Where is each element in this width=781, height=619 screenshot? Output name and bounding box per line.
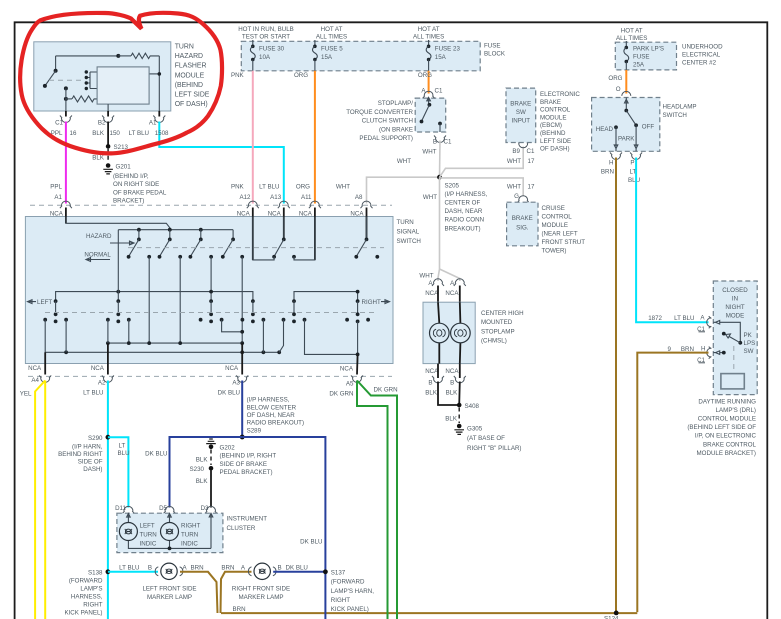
svg-text:PNK: PNK [231,184,245,191]
svg-text:HOT AT: HOT AT [621,28,643,35]
node HOT IN RUN label [238,26,294,41]
svg-text:ALL TIMES: ALL TIMES [413,34,444,41]
terminal A11 (top) [299,201,321,260]
lower switch unit L4 [241,299,266,323]
terminal H C1 (DRL) [707,347,712,359]
svg-text:(FORWARD: (FORWARD [69,578,103,585]
lamp RIGHT TURN INDIC [161,522,201,547]
wire L4 right contact down [262,320,264,353]
svg-text:DAYTIME RUNNING: DAYTIME RUNNING [698,398,756,405]
hazard contact set (top row) [127,228,244,259]
svg-text:FLASHER: FLASHER [175,63,207,70]
wire LT BLU headlamp P to DRL [636,158,708,323]
svg-text:OF BRAKE PEDAL: OF BRAKE PEDAL [113,189,167,196]
ground G201 [103,163,167,204]
svg-text:(ON BRAKE: (ON BRAKE [379,126,413,133]
wire BLK S230 to D3 [196,471,211,508]
svg-text:C1: C1 [55,120,63,127]
svg-text:SIG.: SIG. [516,225,529,232]
svg-text:BRN: BRN [233,606,246,613]
turn hazard flasher module box [34,42,210,111]
svg-text:BRAKE: BRAKE [512,215,533,222]
underhood electrical center #2 box [615,28,723,70]
svg-text:B2: B2 [98,120,106,127]
svg-text:LAMP'S (DRL): LAMP'S (DRL) [716,407,756,414]
mechanical link dashed (lower row) [45,312,376,314]
wire LT BLU S138 to left marker lamp [108,565,158,572]
svg-text:NCA: NCA [268,210,282,217]
svg-text:INPUT: INPUT [512,118,531,125]
lower switch unit L3 [199,299,224,323]
svg-text:(BEHIND: (BEHIND [175,82,203,89]
svg-text:BLK: BLK [92,155,105,162]
wire stationary 180 down to bus [179,257,181,343]
svg-text:FUSE 5: FUSE 5 [321,46,343,53]
svg-text:H: H [701,345,705,352]
splice S124 [604,611,619,619]
svg-text:BRAKE CONTROL: BRAKE CONTROL [703,441,757,448]
svg-text:FUSE 23: FUSE 23 [435,46,461,53]
svg-text:DK GRN: DK GRN [329,390,353,397]
DRL dashed link + output block [721,346,744,389]
svg-text:LT BLU: LT BLU [119,565,139,572]
svg-text:LPS: LPS [744,340,756,347]
svg-text:B: B [450,380,454,387]
svg-text:ELECTRONIC: ELECTRONIC [540,91,580,98]
svg-text:HEADLAMP: HEADLAMP [663,104,697,111]
turn signal switch box [25,217,421,364]
svg-text:WHT: WHT [419,273,433,280]
DRL park lamps switch [713,321,755,356]
wire ORG fuse23 to stoplamp switch [418,71,432,94]
svg-text:B: B [148,565,152,572]
svg-text:A4: A4 [31,377,39,384]
svg-text:ORG: ORG [418,72,432,79]
svg-text:CONTROL MODULE: CONTROL MODULE [698,416,756,423]
svg-text:NORMAL: NORMAL [84,251,111,258]
svg-text:H: H [609,160,613,167]
svg-text:OF DASH): OF DASH) [175,101,208,108]
svg-text:FRONT STRUT: FRONT STRUT [542,239,586,246]
fuse 30 10A [250,40,284,71]
cluster internal wires [127,513,213,550]
NCA labels CHMSL top [425,286,460,303]
wire L1 right contact down [65,320,67,353]
svg-text:SIDE OF BRAKE: SIDE OF BRAKE [220,461,267,468]
svg-text:RADIO BREAKOUT): RADIO BREAKOUT) [247,420,304,427]
flasher inner relay box U1 [97,67,149,111]
park lp's fuse 25A [624,41,664,70]
wire DK GRN A5 branch right [357,381,397,619]
svg-text:LEFT: LEFT [37,299,52,306]
svg-text:17: 17 [528,184,535,191]
lamp CHMSL right bulb [451,302,471,363]
terminal A2 (bottom) [83,343,114,396]
svg-text:15A: 15A [321,54,333,61]
terminal A13 (top) [268,201,290,239]
wire LT BLU A2 down [107,381,109,619]
svg-text:YEL: YEL [20,390,32,397]
svg-text:MODULE BRACKET): MODULE BRACKET) [697,450,756,457]
headlamp switch internals [596,98,655,152]
svg-text:PPL: PPL [50,184,62,191]
svg-text:TURN: TURN [397,219,414,226]
svg-text:(I/P HARNESS,: (I/P HARNESS, [247,397,290,404]
wire DK BLU right marker to S137 [273,565,325,572]
svg-text:INDIC: INDIC [140,540,157,547]
lamp RIGHT FRONT SIDE MARKER [232,563,290,601]
wire WHT S205 down to CHMSL [419,177,459,281]
terminal A1 (top) [50,201,72,223]
svg-text:(AT BASE OF: (AT BASE OF [467,435,505,442]
svg-text:RIGHT FRONT SIDE: RIGHT FRONT SIDE [232,585,290,592]
svg-text:NCA: NCA [425,368,439,375]
terminal D3 [201,505,217,514]
svg-text:LT: LT [119,442,126,449]
switch A11 elbow [294,217,315,260]
svg-text:(BEHIND LEFT SIDE OF: (BEHIND LEFT SIDE OF [687,424,756,431]
svg-text:MODULE: MODULE [542,222,568,229]
flasher internal switch [43,56,68,91]
ground G202 [206,439,276,476]
svg-text:TURN: TURN [140,531,157,538]
svg-text:TOWER): TOWER) [542,248,567,255]
svg-text:KICK PANEL): KICK PANEL) [331,606,369,613]
svg-text:ELECTRICAL: ELECTRICAL [682,52,721,59]
svg-text:RIGHT: RIGHT [362,299,381,306]
wire LT BLU 1508 [129,122,284,204]
wire DK BLU A3 to S289 [241,381,243,438]
svg-text:BRAKE: BRAKE [540,99,561,106]
svg-text:(NEAR LEFT: (NEAR LEFT [542,231,578,238]
svg-text:(BEHIND I/P, RIGHT: (BEHIND I/P, RIGHT [220,453,277,460]
terminal A4 (bottom) [20,352,51,397]
svg-text:NCA: NCA [237,210,251,217]
wire BLK 150 [92,122,120,146]
svg-text:SWITCH: SWITCH [397,238,421,245]
svg-text:D3: D3 [201,505,209,512]
svg-text:S290: S290 [88,435,103,442]
svg-text:CLUSTER: CLUSTER [227,525,256,532]
svg-text:CENTER #2: CENTER #2 [682,60,717,67]
svg-text:HOT AT: HOT AT [321,26,343,33]
svg-text:16: 16 [70,130,77,137]
headlamp switch box [592,98,697,152]
wire DK BLU S289 to D5 [145,437,242,508]
wire subbus-left down to L2 [117,230,119,301]
svg-text:NCA: NCA [445,290,459,297]
svg-text:ON RIGHT SIDE: ON RIGHT SIDE [113,181,159,188]
connector dashed line C2 top [30,204,392,206]
ground G305 [454,424,521,452]
switch A13 unit [272,217,296,259]
terminal A C1 (DRL) [707,316,712,328]
svg-text:I/P, ON ELECTRONIC: I/P, ON ELECTRONIC [695,433,757,440]
wire WHT S205 to A8 [336,158,440,204]
svg-text:HARNESS,: HARNESS, [71,594,103,601]
svg-text:MODULE: MODULE [175,72,205,79]
svg-text:G202: G202 [220,444,236,451]
lower switch unit L1 [43,299,68,323]
svg-text:BRACKET): BRACKET) [113,198,144,205]
svg-text:LAMP'S: LAMP'S [80,586,102,593]
DRL module caption [687,398,756,457]
red scribble circle [20,13,222,154]
svg-text:LEFT FRONT SIDE: LEFT FRONT SIDE [142,585,196,592]
svg-text:B: B [278,565,282,572]
svg-text:TEST OR START: TEST OR START [242,34,290,41]
svg-text:B: B [433,139,437,146]
svg-text:HAZARD: HAZARD [175,53,203,60]
terminal A (CHMSL left) [428,279,444,287]
svg-text:RIGHT: RIGHT [181,522,200,529]
wire BLK to G305 [445,408,459,424]
svg-text:SWITCH: SWITCH [663,112,687,119]
svg-text:BLOCK: BLOCK [484,51,506,58]
svg-text:(CHMSL): (CHMSL) [481,338,507,345]
wire L5 right contact down [305,320,358,355]
svg-text:S230: S230 [190,466,205,473]
svg-text:FUSE: FUSE [633,54,650,61]
svg-text:DK BLU: DK BLU [300,539,322,546]
terminal A12 (top) [237,201,259,260]
svg-text:G201: G201 [116,164,132,171]
svg-text:BELOW CENTER: BELOW CENTER [247,404,297,411]
svg-text:CLOSED: CLOSED [722,287,748,294]
internal bus y352 [45,350,281,354]
svg-text:BREAKOUT): BREAKOUT) [445,225,481,232]
wire WHT TCC to S205 [439,141,442,178]
svg-text:LEFT: LEFT [140,522,155,529]
wire DK BLU S289 to S137 [242,437,325,619]
svg-text:WHT: WHT [423,194,437,201]
svg-text:LEFT SIDE: LEFT SIDE [175,92,210,99]
svg-text:SIGNAL: SIGNAL [397,229,420,236]
svg-text:PARK LP'S: PARK LP'S [633,46,664,53]
wire BRN DRL H down [637,353,708,612]
wire stationary 242 down to A3 [241,257,243,364]
connector dashed line C2 bottom [28,375,392,377]
svg-text:D5: D5 [159,505,167,512]
svg-text:BLU: BLU [118,450,130,457]
svg-text:25A: 25A [633,62,645,69]
svg-text:WHT: WHT [397,158,411,165]
terminal A5 (bottom) [329,354,397,397]
RIGHT label [362,299,390,306]
lower switch unit L5 [282,299,307,323]
svg-text:P: P [630,160,634,167]
svg-text:PNK: PNK [231,72,245,79]
svg-text:PARK: PARK [618,135,635,142]
terminal B9 C1 (EBCM) [512,141,535,155]
terminal P (headlamp) [628,153,642,185]
internal bus y343 [106,341,244,345]
svg-text:A1: A1 [54,194,62,201]
svg-text:NIGHT: NIGHT [725,304,744,311]
svg-text:PK: PK [744,332,753,339]
terminal D11 [115,505,134,514]
svg-text:BLK: BLK [92,130,105,137]
svg-text:BLK: BLK [196,478,209,485]
svg-text:RIGHT "B" PILLAR): RIGHT "B" PILLAR) [467,445,521,452]
svg-text:OF DASH, NEAR: OF DASH, NEAR [247,412,296,419]
svg-text:BEHIND RIGHT: BEHIND RIGHT [58,451,103,458]
svg-text:LT BLU: LT BLU [83,389,103,396]
svg-text:ALL TIMES: ALL TIMES [616,35,647,42]
svg-text:DASH): DASH) [83,466,102,473]
svg-text:BRN: BRN [191,565,204,572]
svg-text:PEDAL SUPPORT): PEDAL SUPPORT) [359,135,413,142]
wire ORG fuse to headlamp switch [608,70,630,96]
svg-text:WHT: WHT [336,184,350,191]
svg-text:10A: 10A [259,54,271,61]
wire PPL 16 [50,122,77,204]
svg-text:DK BLU: DK BLU [286,565,308,572]
flasher internal resistor R2 [64,88,98,111]
svg-text:HOT AT: HOT AT [418,26,440,33]
svg-text:NCA: NCA [445,368,459,375]
svg-text:LT BLU: LT BLU [259,184,279,191]
svg-text:DASH, NEAR: DASH, NEAR [445,208,483,215]
fuse 23 15A [426,40,460,71]
svg-text:A1: A1 [149,120,157,127]
svg-text:A13: A13 [270,194,282,201]
svg-text:CRUISE: CRUISE [542,205,565,212]
svg-text:(EBCM): (EBCM) [540,122,562,129]
svg-text:OF DASH): OF DASH) [540,146,570,153]
flasher internal dashed link [49,79,84,81]
svg-text:LAMP'S HARN,: LAMP'S HARN, [331,588,374,595]
svg-text:KICK PANEL): KICK PANEL) [64,610,102,617]
wire WHT S205 to EBCM [440,147,535,178]
wire L5 left contact to bus352 [279,320,283,353]
svg-text:DK BLU: DK BLU [218,389,240,396]
svg-text:MARKER LAMP: MARKER LAMP [147,594,192,601]
wire A2 internal [107,320,109,364]
svg-text:ALL TIMES: ALL TIMES [316,34,347,41]
svg-text:BRAKE: BRAKE [510,101,531,108]
splice S213 [106,144,129,151]
svg-text:FUSE 30: FUSE 30 [259,46,285,53]
svg-text:LEFT SIDE: LEFT SIDE [540,138,571,145]
svg-text:INDIC: INDIC [181,540,198,547]
svg-text:C1: C1 [444,139,452,146]
fuse block box [241,41,506,71]
terminal G (cruise) [517,196,529,203]
splice S290 [58,435,110,473]
splice S138 [64,569,110,616]
wire BLK G202 to S230 [196,450,211,466]
svg-text:DK BLU: DK BLU [145,451,167,458]
svg-text:MODULE: MODULE [540,114,566,121]
LEFT label [28,299,53,306]
CHMSL box [423,302,524,363]
svg-text:HEAD: HEAD [596,126,614,133]
svg-text:ORG: ORG [294,72,308,79]
svg-text:IN: IN [732,296,738,303]
svg-text:A3: A3 [232,379,240,386]
svg-text:TURN: TURN [181,531,198,538]
wire BRN bottom bus [221,612,637,614]
wire A5 internal [357,321,359,363]
wire PNK fuse30 to A12 [231,71,253,204]
svg-text:(BEHIND: (BEHIND [540,130,566,137]
svg-text:LT BLU: LT BLU [129,130,149,137]
svg-text:(BEHIND I/P,: (BEHIND I/P, [113,173,149,180]
svg-text:NCA: NCA [340,366,354,373]
stoplamp / TCC switch box [346,98,446,142]
svg-text:17: 17 [528,158,535,165]
svg-text:BLK: BLK [196,456,209,463]
svg-text:LT BLU: LT BLU [674,315,694,322]
hazard/normal labels [84,233,134,261]
cruise control module box [507,202,586,254]
terminal A C1 (TCC) [421,88,443,99]
svg-text:S408: S408 [465,403,480,410]
DRL module box [713,281,757,395]
svg-text:150: 150 [110,130,121,137]
splice S230 [190,466,214,473]
wire WHT S205 to cruise module [440,178,535,200]
terminal H (headlamp) [601,153,622,176]
svg-text:WHT: WHT [507,184,521,191]
svg-text:RIGHT: RIGHT [331,597,350,604]
svg-text:A8: A8 [355,194,363,201]
labels 1872 LT BLU A C1 [648,314,705,333]
labels 9 BRN H C1 [668,345,706,364]
svg-text:15A: 15A [435,54,447,61]
svg-text:TURN: TURN [175,44,194,51]
switch wire A1 feed bus [66,217,233,230]
flasher terminals C1 B2 A1 [55,111,165,127]
svg-text:PEDAL BRACKET): PEDAL BRACKET) [220,469,273,476]
terminal B (CHMSL left) [425,364,460,387]
wire ORG fuse5 to A11 [294,71,315,204]
svg-text:SW: SW [516,109,526,116]
svg-text:MOUNTED: MOUNTED [481,319,513,326]
wire BRN left marker to bus [180,565,218,613]
wire YEL A4 split [35,381,45,619]
svg-text:WHT: WHT [507,158,521,165]
svg-text:S289: S289 [247,427,262,434]
svg-text:S137: S137 [331,569,346,576]
mechanical link dashed (top row) [128,247,384,249]
svg-text:MARKER LAMP: MARKER LAMP [238,594,283,601]
splice S289 [240,397,304,440]
svg-text:S138: S138 [88,570,103,577]
wire BLK to G201 [92,149,108,163]
svg-text:G305: G305 [467,426,483,433]
svg-text:A5: A5 [346,381,354,388]
svg-text:BRN: BRN [221,565,234,572]
left bus [56,290,253,301]
svg-text:(FORWARD: (FORWARD [331,579,365,586]
svg-text:B9: B9 [512,148,520,155]
instrument cluster box [117,513,267,552]
flasher relay pin header [85,70,97,90]
flasher internal top bus + resistor R1 [56,53,162,111]
svg-text:SIDE OF: SIDE OF [78,459,103,466]
splice S408 [457,403,480,410]
svg-text:C1: C1 [435,88,443,95]
node HOT AT ALL TIMES label (fuse 23) [413,26,444,41]
svg-text:CONTROL: CONTROL [542,214,573,221]
svg-text:STOPLAMP: STOPLAMP [481,328,515,335]
svg-text:BLK: BLK [446,390,459,397]
terminal B (CHMSL right) [425,376,466,397]
svg-text:ORG: ORG [608,75,622,82]
svg-text:FUSE: FUSE [484,43,501,50]
